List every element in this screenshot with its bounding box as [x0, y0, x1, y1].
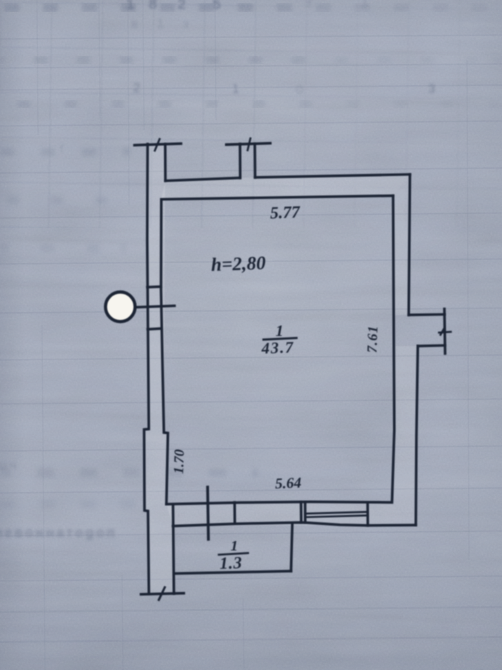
wire break slash on left stub [155, 139, 160, 151]
extension right wall [291, 524, 292, 571]
inner right wall [392, 196, 394, 503]
window bottom glass line 1 [305, 512, 368, 514]
wall stub top-mid left vertical [239, 144, 242, 178]
wall cavity light fill right lower [392, 346, 418, 525]
svg-text:h=2,80: h=2,80 [211, 253, 267, 276]
door opening left jamb [233, 502, 236, 523]
doorway right top line [409, 313, 445, 316]
wall stub top-left T-bar [135, 144, 182, 146]
window bottom right edge [366, 502, 369, 525]
outer bottom wall line [173, 522, 416, 526]
outer left wall [144, 144, 149, 594]
extension left wall [172, 505, 175, 594]
svg-text:1: 1 [231, 539, 239, 555]
svg-text:1.70: 1.70 [172, 449, 188, 474]
doorway bar tick [439, 331, 451, 334]
fraction bar room label [264, 338, 297, 340]
base line bottom-left [141, 593, 184, 594]
outer right wall lower [416, 346, 418, 525]
window rung 1 left wall [147, 285, 160, 288]
riser circle [106, 292, 136, 322]
wall cavity light fill left [144, 144, 174, 594]
doorway right outer bar [443, 309, 446, 354]
door opening right jamb [300, 502, 303, 523]
extension bottom wall [174, 571, 291, 573]
pipe line through left wall [135, 306, 175, 308]
svg-text:43.7: 43.7 [260, 339, 294, 357]
inner top wall line [161, 196, 393, 200]
wall stub top-mid T-bar [226, 143, 270, 144]
window rung 2 left wall [148, 327, 162, 330]
ghost table grid top [0, 0, 502, 228]
wall stub top-left inner vertical [164, 144, 167, 181]
outer top wall line [255, 174, 410, 177]
dimension tick at bottom wall [206, 487, 210, 539]
wall cavity light fill bottom [166, 502, 415, 526]
inner left wall [161, 199, 168, 504]
wall cavity light fill top [161, 174, 410, 199]
svg-text:1: 1 [276, 323, 284, 340]
break slash on base line [159, 587, 165, 600]
svg-text:5.77: 5.77 [270, 202, 302, 222]
doorway right bottom line [418, 344, 445, 347]
svg-text:5.64: 5.64 [275, 476, 302, 493]
ghost bleed-through marks [126, 0, 223, 13]
outer right wall upper [409, 174, 410, 315]
wall cavity light fill right [393, 174, 410, 315]
ghost smudge rows [0, 3, 502, 12]
svg-text:7.61: 7.61 [366, 325, 382, 353]
doorway bar slash [441, 328, 445, 335]
wall outer face between stubs [165, 178, 240, 181]
inner bottom wall line [166, 502, 391, 504]
window bottom glass line 2 [305, 515, 368, 517]
wall stub top-mid right vertical [254, 144, 257, 178]
fraction bar extension label [219, 553, 248, 555]
break slash on mid stub [248, 138, 251, 150]
svg-text:1.3: 1.3 [219, 553, 242, 573]
window bottom left edge [304, 502, 307, 522]
